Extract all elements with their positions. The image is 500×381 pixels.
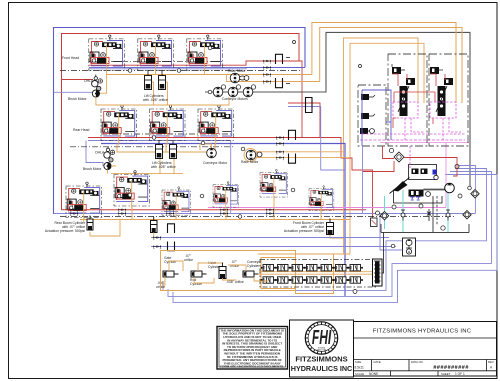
wire: row2 black dashed bus: [70, 134, 235, 147]
pump area red wires: [393, 74, 445, 128]
variable pump symbol: [393, 181, 408, 192]
svg-text:OHLA: OHLA: [84, 79, 94, 83]
row3 head unit 1: [66, 182, 102, 222]
control box valve 3: [360, 128, 374, 134]
labels main: [45, 56, 325, 289]
tank and power unit area: [362, 146, 479, 256]
conveyor cylinder: [243, 271, 259, 277]
row4 bracket top: [168, 224, 175, 233]
orange enclosure tall: [296, 254, 334, 294]
red feed lines: [362, 146, 457, 176]
row3 bus disconnects: [70, 209, 274, 217]
cylinder orange plumbing: [162, 261, 268, 285]
wire: row2 purple left drop: [86, 141, 103, 167]
svg-text:FITZSIMMONS HYDRAULICS INC: FITZSIMMONS HYDRAULICS INC: [373, 329, 472, 335]
svg-text:Actuation pressure: 500psi: Actuation pressure: 500psi: [45, 229, 85, 233]
control box valve 2: [361, 113, 375, 119]
main title box: [354, 322, 497, 377]
svg-text:FITZSIMMONS: FITZSIMMONS: [295, 355, 347, 364]
row2 disconnect column: [276, 136, 284, 160]
wire: row1 red bus: [89, 61, 302, 138]
logo box: [290, 320, 354, 377]
valve A2: [406, 78, 415, 85]
wire: row3 red bus: [66, 209, 80, 211]
wire: purple link mid: [288, 107, 345, 171]
row2 rake motor: [244, 149, 262, 162]
strainer filter left: [376, 211, 389, 220]
svg-text:SCALE: SCALE: [355, 372, 364, 376]
svg-text:Conveyor Motors: Conveyor Motors: [222, 97, 248, 101]
wire: cyan suction lines: [403, 190, 448, 232]
suction cyan lines: [385, 194, 449, 229]
wire: row1 orange rake/disconnect runs: [252, 74, 312, 76]
wire: tank line: [381, 232, 469, 234]
wire: row3 pink bus: [208, 207, 446, 209]
svg-text:Actuation pressure: 500psi: Actuation pressure: 500psi: [284, 229, 324, 233]
enclosure pump box A: [388, 54, 427, 146]
enclosure pump box B: [429, 54, 468, 146]
wire: row2 purple bus: [88, 141, 402, 251]
wire: red link row1-row2: [288, 103, 320, 138]
tank walls: [381, 224, 469, 233]
svg-text:FHI: FHI: [312, 327, 332, 349]
wire: row3 purple bus: [54, 213, 476, 215]
row2 brush motor: [104, 162, 116, 173]
small circle left of return unit: [391, 244, 395, 248]
wire: row1 orange bus: [107, 74, 227, 76]
valve B2: [444, 78, 453, 85]
row1 disconnect column: [263, 60, 271, 84]
notes text: [220, 328, 284, 368]
strainer filter right: [463, 211, 471, 219]
svg-text:SIZE: SIZE: [355, 360, 361, 364]
row3 head unit 2: [114, 171, 150, 211]
magenta crossbus: [362, 133, 465, 135]
wire: row1 purple bus: [89, 68, 305, 69]
wire: rear boom cylinder orange: [90, 220, 120, 237]
valve A1: [392, 64, 405, 74]
svg-text:Rear Head: Rear Head: [73, 128, 90, 132]
svg-text:1 OF 1: 1 OF 1: [455, 372, 465, 376]
row1 head unit 3: [187, 35, 223, 75]
port circles: [392, 205, 396, 209]
row2 lift cylinder R: [170, 140, 177, 159]
wire: purple return D to bus: [455, 166, 475, 214]
manifold valve 2: [421, 169, 428, 175]
bank end block: [373, 259, 383, 286]
row1 conveyor motors: [208, 85, 256, 97]
svg-text:HYDRAULICS INC: HYDRAULICS INC: [291, 364, 353, 373]
svg-text:Rake Motor: Rake Motor: [228, 69, 246, 73]
wire: purple return serpentine B: [168, 172, 492, 297]
svg-text:with .028" orifice: with .028" orifice: [143, 98, 168, 102]
svg-text:REV: REV: [488, 360, 494, 364]
svg-text:with .028" orifice: with .028" orifice: [151, 165, 176, 169]
manifold valve 1: [412, 169, 419, 175]
wire: row1 red to OHLA: [62, 79, 94, 81]
check valve mid2: [427, 209, 431, 221]
main pump circle: [445, 183, 455, 193]
svg-text:Rake Motor: Rake Motor: [241, 160, 259, 164]
wire: row2 red bus: [88, 138, 373, 219]
logo tick marks: [305, 322, 337, 354]
orange enclosure gate area: [161, 251, 296, 291]
wire: row3 orange bus: [80, 196, 350, 220]
node circles on buses: [128, 41, 361, 219]
row2 conveyor motor: [207, 148, 217, 158]
manifold solenoid blue: [433, 170, 437, 175]
lower valve block: [409, 190, 424, 197]
svg-text:SHEET: SHEET: [441, 372, 451, 376]
row2 lift cylinder L: [156, 140, 163, 159]
red feed filter diamond: [389, 148, 404, 162]
wire: orange top loop: [312, 23, 462, 104]
pump A magenta pilot box: [393, 102, 418, 118]
gate cylinder: [163, 271, 179, 277]
svg-text:NEW YORK: NEW YORK: [317, 350, 328, 352]
right filter diamond: [468, 186, 480, 198]
wire: purple return serpentine A: [163, 169, 487, 291]
check valve mid3: [446, 210, 450, 221]
row1 brush motor: [92, 90, 229, 105]
return unit box: [403, 238, 416, 256]
bank dashed box: [260, 260, 376, 288]
wire: row1 blue to brush motor: [54, 91, 93, 93]
svg-text:Brush Motor: Brush Motor: [83, 167, 102, 171]
title grid vlines: [372, 360, 487, 377]
rod cylinder: [191, 271, 207, 277]
notes box outer: [217, 327, 288, 370]
cylinders group: [162, 261, 268, 285]
wire: row1 blue bus: [89, 66, 305, 68]
drive shaft: [424, 189, 446, 191]
row1 rake motor: [227, 73, 253, 83]
row3 head unit 6: [309, 186, 334, 214]
svg-text:OHLA: OHLA: [95, 150, 105, 154]
rear boom cylinder 2: [151, 217, 158, 238]
gauge circle: [434, 175, 438, 179]
row3 head unit 4: [213, 182, 239, 211]
valve bank: [161, 251, 383, 294]
control box valve 1: [361, 94, 375, 100]
row2 head unit 2: [150, 105, 186, 145]
svg-text:Brush Motor: Brush Motor: [68, 97, 87, 101]
wire: row1 conveyor shaft black: [205, 32, 470, 189]
wire: row2 blue bus: [101, 144, 345, 297]
wire: front boom cylinder orange: [330, 234, 344, 238]
svg-text:Front Head: Front Head: [62, 56, 79, 60]
hoist cylinder: [219, 263, 226, 279]
wire: magenta pump lines: [360, 139, 465, 141]
svg-text:Cylinder: Cylinder: [247, 264, 260, 268]
wire: orange mid verticals to valve bank: [344, 38, 419, 254]
row1 bracket bottom: [276, 78, 283, 88]
pump A piston stack: [398, 86, 409, 116]
row1 head unit 2: [138, 35, 174, 75]
valve cells row B: [261, 277, 277, 283]
left purple drop from pump box: [362, 146, 364, 214]
wire: valve bank drop black: [382, 196, 433, 273]
wire: red main loop: [62, 34, 367, 210]
wire: purple return serpentine C: [173, 175, 497, 303]
wire: row3 black dashed bus: [60, 216, 455, 218]
wire: row2 conveyor motor orange hook: [200, 144, 212, 150]
logo circle ring: [305, 322, 337, 354]
row1 bracket top: [276, 54, 283, 64]
wire: row1 orange box1 drop: [99, 75, 106, 94]
row4 disconnect column: [153, 236, 161, 249]
valve B1: [430, 67, 443, 74]
svg-text:##########: ##########: [433, 365, 469, 371]
relief valve box: [371, 218, 378, 227]
svg-text:orifice: orifice: [184, 258, 193, 262]
pilot drops magenta: [405, 118, 461, 140]
svg-text:DWG NO.: DWG NO.: [411, 360, 424, 364]
wire: row2 orange right runs: [256, 152, 350, 158]
wire: orange feeds valve bank top: [258, 253, 350, 255]
orange enclosure mid: [261, 258, 296, 289]
row3 head unit 3: [162, 187, 190, 219]
wire: row1 black dashed bus: [60, 61, 302, 70]
row1 lift cylinder L: [145, 70, 152, 89]
rear boom cylinder: [87, 216, 93, 231]
wire: row2 orange bus: [111, 144, 215, 174]
title block: [217, 320, 497, 377]
valve block tank Ts blue: [410, 197, 421, 200]
svg-text:8.5x11: 8.5x11: [355, 366, 365, 370]
row3 head unit 5: [260, 169, 288, 200]
solenoid tank T: [433, 177, 437, 180]
valve cells row A: [261, 265, 277, 271]
row2 bracket top: [289, 130, 296, 140]
row3 bracket: [306, 98, 313, 113]
row1 OHLA unit: [92, 75, 103, 91]
svg-text:DATE: DATE: [374, 360, 381, 364]
notes box inner: [219, 329, 286, 368]
power frame U: [394, 190, 443, 204]
check valve mid1: [401, 210, 405, 221]
wire: row4 purple bus B: [151, 246, 396, 248]
row2 bracket bottom: [289, 154, 296, 164]
bank orange rails: [259, 272, 372, 275]
wire: blue main loop: [54, 28, 476, 214]
pump station area: [358, 54, 468, 146]
row2 head unit 1: [101, 105, 137, 145]
svg-text:.038" orifice: .038" orifice: [226, 280, 244, 284]
row1 head unit 1: [89, 35, 125, 75]
row2 OHLA unit: [104, 147, 115, 163]
bank circle: [353, 290, 357, 294]
row4 bracket bottom: [168, 242, 175, 251]
pump B magenta pilot box: [430, 102, 456, 118]
svg-text:Conveyor Motor: Conveyor Motor: [203, 161, 228, 165]
enclosure control box: [358, 85, 386, 146]
svg-text:FORM ARE UNCONTROLLED DOCUMENT: FORM ARE UNCONTROLLED DOCUMENTS.: [220, 365, 284, 369]
manifold block outline: [409, 165, 437, 180]
pump red risers: [392, 74, 436, 86]
pump B piston stack: [436, 86, 447, 116]
svg-text:NONE: NONE: [369, 372, 378, 376]
wire: row4 purple bus A: [151, 237, 389, 239]
pilot magenta drop: [409, 146, 411, 168]
row2 head unit 3: [198, 105, 234, 145]
pump area blue wires: [362, 90, 391, 146]
drain dashed: [436, 196, 438, 225]
row1 lift cylinder R: [159, 70, 166, 89]
front boom cylinder: [327, 219, 334, 235]
title band line: [354, 338, 497, 371]
